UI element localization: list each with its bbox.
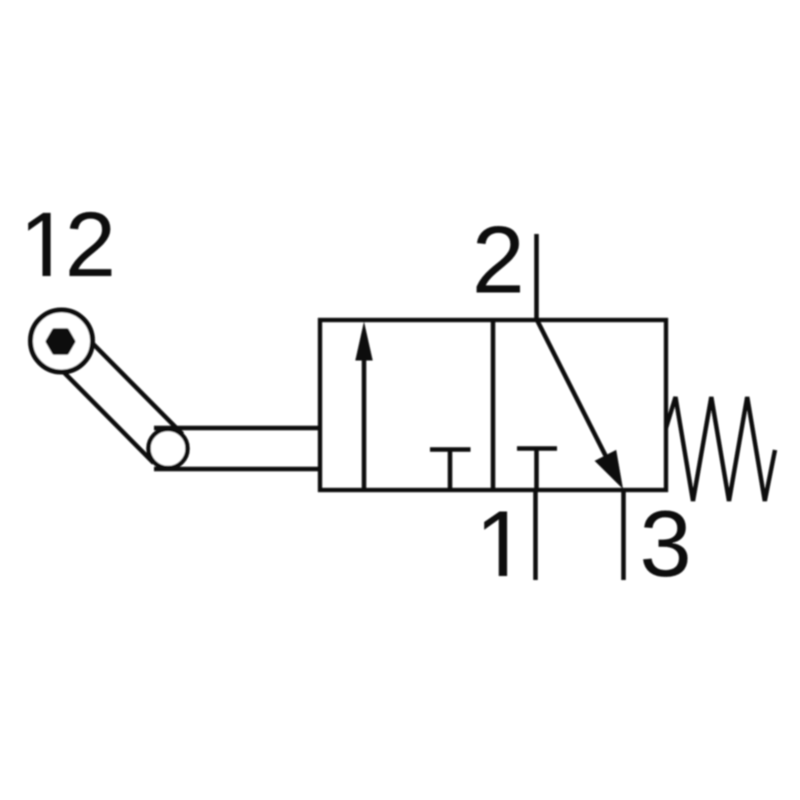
blocked port 1 symbol (right square) (517, 449, 557, 491)
lever arm (actuator linkage) (47, 327, 182, 463)
flow arrow 1 to 2 (left square) shaft (362, 356, 367, 488)
flow path 2 to 3 (right square) shaft (537, 320, 608, 461)
port 1 line (533, 490, 538, 580)
valve body rectangle (320, 320, 666, 490)
lever knob circle (31, 310, 93, 372)
position divider (491, 320, 496, 490)
plunger rod (top line) (154, 426, 322, 431)
label 12 (pilot/actuation) (28, 212, 111, 276)
plunger rod (bottom line) (154, 467, 322, 472)
label port 3 (643, 511, 687, 577)
elbow joint circle (149, 429, 188, 468)
port 3 line (621, 490, 626, 580)
port 2 line (534, 234, 539, 320)
hex socket (black) (48, 330, 74, 353)
label port 2 (477, 226, 520, 292)
label port 1 (484, 511, 507, 576)
flow path 2 to 3 arrowhead (595, 450, 623, 489)
return spring (666, 397, 775, 501)
flow arrow 1 to 2 head (355, 322, 372, 361)
blocked port 3 symbol (left square) (430, 450, 471, 489)
